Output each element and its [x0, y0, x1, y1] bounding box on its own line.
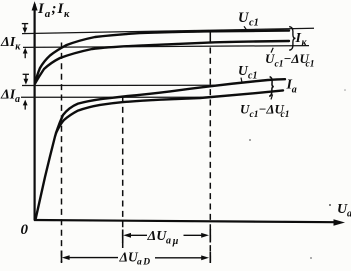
dim arrow dUa-mu [123, 233, 209, 238]
label Ia;Ik (y-axis) [37, 1, 70, 20]
svg-text:c1: c1 [275, 60, 284, 70]
leader tick Uc1-dUc1 lower [271, 94, 273, 99]
speck bottom right [310, 257, 312, 259]
svg-text:U: U [240, 102, 250, 117]
svg-text:;: ; [52, 1, 57, 17]
svg-text:c1: c1 [281, 110, 290, 120]
svg-text:a: a [347, 208, 351, 219]
thin line L2 (Ik lower level) [23, 46, 309, 48]
dim arrow A4 up (dIa bottom) [23, 100, 28, 110]
dashed line D2 (x=123) [122, 97, 124, 249]
svg-text:a: a [137, 257, 142, 267]
label Uc1-dUc1 top [265, 51, 314, 69]
dim arrow dUa-D [62, 255, 209, 260]
label Uc1 top [238, 10, 259, 29]
label Uc1-dUc1 lower [240, 102, 289, 121]
label dIk [0, 35, 21, 52]
svg-text:c1: c1 [248, 70, 257, 81]
svg-text:c1: c1 [306, 60, 315, 70]
svg-text:ΔU: ΔU [119, 249, 139, 264]
svg-text:0: 0 [21, 222, 29, 238]
dim arrow A1 down (dIk top) [22, 24, 28, 34]
speck mid right [249, 139, 251, 141]
y-axis [33, 4, 35, 221]
svg-text:ΔI: ΔI [0, 87, 16, 102]
svg-text:a: a [292, 85, 297, 96]
leader tick Uc1 top [244, 26, 248, 31]
brace for Ia [269, 77, 274, 97]
dashed line D3 (x=210) [209, 48, 211, 263]
dashed line D1 at knee (x=61) [61, 43, 63, 263]
brace for Ik [289, 27, 295, 51]
label dIa [0, 87, 20, 105]
label Ik right [295, 31, 308, 48]
svg-text:I: I [37, 1, 45, 17]
label dUa-mu [147, 229, 179, 247]
y-axis arrowhead [32, 1, 38, 10]
end bar D2 at dUa-mu arrow [122, 230, 124, 244]
dim arrow A3 down (dIa top) [23, 74, 29, 84]
end bar D3 at dUa-mu arrow [209, 229, 211, 243]
svg-text:U: U [265, 51, 275, 66]
thin line L1 (Ik upper level) [22, 28, 314, 33]
label Uc1 lower [238, 63, 257, 82]
thin line L4 (Ia lower level) [21, 96, 211, 98]
speck near Ik label [344, 89, 346, 91]
label dUa-D [119, 249, 151, 267]
x-axis [34, 220, 336, 222]
svg-text:c1: c1 [249, 17, 259, 28]
end bar D3 at dUaD arrow [209, 252, 211, 264]
curve A: Ik at Uc1 [35, 31, 289, 84]
svg-text:к: к [64, 9, 70, 20]
end bar D1 at dUaD arrow [61, 251, 63, 264]
svg-text:I: I [295, 31, 302, 46]
svg-text:μ: μ [172, 236, 179, 247]
curve P: Ia at Uc1 (steep rise from origin) [36, 79, 286, 219]
curve Q: Ia at Uc1-dUc1 [56, 90, 283, 133]
svg-text:c1: c1 [250, 110, 259, 120]
svg-text:ΔU: ΔU [147, 229, 168, 244]
svg-text:ΔI: ΔI [0, 35, 16, 50]
speck near Ua [329, 204, 331, 206]
svg-text:a: a [15, 94, 20, 105]
curve B: Ik at Uc1-dUc1 [35, 41, 289, 84]
label Ia right [286, 78, 297, 96]
svg-text:a: a [166, 236, 171, 247]
svg-text:a: a [45, 8, 51, 20]
leader tick Uc1-dUc1 top [271, 48, 273, 53]
leader tick Uc1 lower [241, 78, 242, 84]
dim arrow A2 up (dIk bottom) [23, 48, 28, 59]
x-axis arrowhead [334, 219, 346, 225]
svg-text:D: D [142, 257, 150, 267]
thin line L3 (Ia upper level) [22, 84, 221, 86]
label Ua (x-axis) [337, 202, 351, 219]
dashed line D3 (x=210) solid tick between curves [209, 32, 211, 43]
